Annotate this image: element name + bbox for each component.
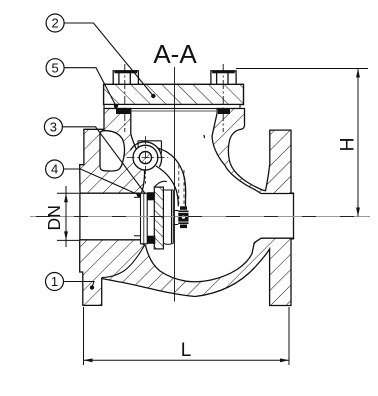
svg-text:1: 1 <box>51 274 58 289</box>
svg-text:2: 2 <box>51 16 58 31</box>
svg-text:L: L <box>181 340 192 361</box>
svg-text:5: 5 <box>51 60 58 75</box>
svg-text:A-A: A-A <box>153 39 197 69</box>
svg-text:DN: DN <box>44 205 64 230</box>
svg-text:H: H <box>337 137 359 151</box>
svg-text:4: 4 <box>51 162 58 177</box>
svg-text:3: 3 <box>50 119 57 134</box>
